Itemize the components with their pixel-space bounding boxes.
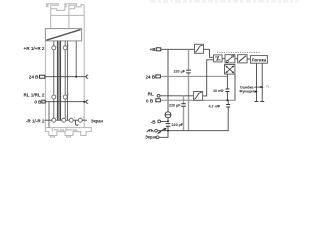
wire 4.7nF branch [227,100,229,104]
terminal circle row1 col2 [63,46,67,50]
svg-text:RL 1/RL 2: RL 1/RL 2 [23,93,44,98]
current source symbol [165,112,171,118]
svg-text:220 µF: 220 µF [172,123,184,127]
internal terminal column wires [49,41,76,128]
arrow error [260,86,263,88]
faint cropped text remnant top right [150,0,299,3]
capacitor 10nF plates [225,89,229,92]
svg-text:0 В: 0 В [34,100,42,105]
module upper shelf [51,9,84,16]
ramp curve in upper box [195,45,203,52]
terminal circle rowRL col1 [52,95,56,99]
DC box symbol [215,56,221,61]
logic box [250,56,267,64]
junction dot shield [167,130,169,132]
svg-text:Экран: Экран [145,134,158,139]
capacitor C3 220uF plates [166,124,171,127]
optocoupler end circles [226,61,228,63]
optocoupler box [225,55,235,63]
vertical wire current source branch [167,49,169,130]
dark internal bus [58,41,61,120]
dashed isolation line [217,51,260,53]
diagonal stripe inside label box [46,30,80,41]
module footer notched bottom outline [45,132,91,136]
svg-text:Экран: Экран [91,118,104,123]
svg-text:750 461 /753 461: 750 461 /753 461 [54,128,78,132]
wire 24V schematic [160,75,227,77]
connector 24V left [40,75,45,78]
open end hook 0V [86,100,88,103]
terminal number ticks rowRL [56,93,69,97]
shield start circle [155,129,158,132]
crossed arrows [226,66,234,73]
svg-text:24 В: 24 В [145,74,155,79]
DC/DC transformer crossed box [225,65,235,75]
clip 2 tab inner edge [65,4,67,8]
terminal number ticks row-R [56,116,85,120]
svg-text:Логика: Логика [252,58,267,63]
terminal circle row-R c3 [69,118,73,122]
wire column 1 upper [53,41,55,118]
wire -V [161,120,168,122]
svg-text:0 В: 0 В [146,98,154,103]
arrow function [255,90,258,92]
LED line 2 [260,63,264,101]
svg-text:+R 1/+R 2: +R 1/+R 2 [24,46,45,51]
svg-text:Ть: Ть [266,85,270,89]
terminal circle row-R c4 [78,118,82,122]
gray vertical 188 upper [188,49,190,130]
svg-text:-В: -В [151,119,157,124]
svg-text:Функция: Функция [239,90,254,94]
svg-text:5: 5 [68,43,70,47]
wire crossed box right pin down [234,74,236,100]
terminal circle rowRL col2 [63,95,67,99]
svg-text:220 µF: 220 µF [169,104,181,108]
terminal number ticks row1 [56,43,69,47]
spark gap arrow on shield [158,129,165,134]
terminal circle row-R c2 [62,118,66,122]
capacitor 4.7nF plates [226,105,230,108]
connector 0V left [42,100,45,103]
svg-text:4: 4 [74,116,76,120]
module clip 2 (top latch profile) [65,4,84,11]
wire column aux 3 [48,102,50,128]
svg-text:4,7 нФ: 4,7 нФ [208,104,220,108]
capacitor C1 220uF plates [186,70,191,73]
gray vertical 183 [183,96,185,131]
Ekran terminal wire [159,131,168,138]
wire 0V through module [45,101,86,103]
svg-text:24 В: 24 В [29,74,39,79]
open end hook 24V [86,75,88,78]
DC converter box [214,55,223,62]
wire -R row [45,119,87,121]
shield wire [157,107,229,131]
wire column aux 2 [75,41,77,77]
clip 1 tab inner edge [47,4,49,8]
svg-text:10 нФ: 10 нФ [213,89,224,93]
ADC box upper [195,44,204,53]
connector RL open circle [157,94,160,97]
junction dot 24V [75,76,77,78]
module footer band [45,128,91,132]
module clip 1 (top latch profile) [47,4,65,11]
wire 0V rail [160,99,235,101]
footer feet [50,136,70,138]
wire +V horizontal [161,48,195,50]
leader error [254,87,261,92]
svg-text:-R 1/-R 2: -R 1/-R 2 [26,118,45,123]
module left body edge [44,41,46,128]
junction dot on 0V rail [226,99,228,101]
LED line 1 [255,63,259,101]
current source bar [165,114,171,116]
wire column aux 1 [67,41,69,120]
wire diag box to logic [247,58,250,60]
optocoupler diagonal [227,56,234,61]
junction dot 0V [83,101,85,103]
wire crossed box left pin down [226,74,228,100]
wire column 2 upper [64,41,66,118]
connector 24V right [156,75,161,78]
diagonal stroke [239,56,246,62]
svg-text:RL: RL [148,92,154,97]
ramp curve in lower box [194,92,202,99]
connector 0V right [156,99,161,102]
wire links between isolation boxes [222,58,238,60]
shield pigtail curl [75,120,78,125]
wire 24V through module [45,76,87,78]
module label box with diagonal [45,29,81,41]
wire upper box to DC box [204,49,214,57]
wire lower box output up [203,60,214,96]
connector -V open circle [158,120,161,123]
module upper body verticals [51,5,84,128]
chassis ground symbol [147,130,154,133]
terminal circle row1 col1 [52,46,56,50]
svg-text:220 µF: 220 µF [173,70,185,74]
ADC box lower [194,92,203,101]
footer band dividers [52,128,66,132]
connector +V [156,48,161,51]
wire RL [160,95,193,97]
svg-text:7: 7 [68,93,70,97]
capacitor C2 220uF plates [181,104,186,107]
svg-text:+В: +В [150,47,157,52]
isolation diagonal box [238,55,247,63]
junction dot -V [167,120,169,122]
Ekran terminal circle [156,136,159,139]
terminal circle row-R c1 [52,118,56,122]
